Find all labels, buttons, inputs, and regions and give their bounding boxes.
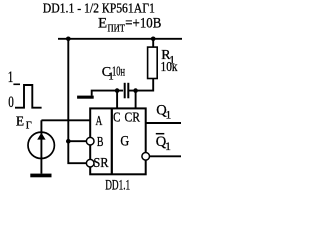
wire: +E vertical down to SR — [68, 39, 87, 163]
junction node: rail to R1 — [151, 37, 156, 42]
svg-text:DD1.1 - 1/2 КР561АГ1: DD1.1 - 1/2 КР561АГ1 — [43, 1, 155, 16]
pulse waveform — [15, 85, 42, 108]
svg-text:10н: 10н — [112, 65, 125, 80]
svg-text:Е: Е — [16, 114, 24, 129]
generator shaft wire — [40, 120, 42, 173]
svg-text:CR: CR — [125, 109, 141, 124]
wire: generator to pin A — [41, 119, 90, 121]
svg-text:10к: 10к — [161, 60, 178, 75]
wire: output Q1bar — [149, 155, 181, 157]
wire: rail down to R1 top — [152, 39, 154, 47]
ground bar near capacitor — [77, 96, 94, 99]
label Q1bar overline — [156, 133, 165, 135]
waveform level tick 1 — [13, 83, 20, 85]
wire: R1 bottom to capacitor node — [129, 79, 154, 91]
junction node at B row — [66, 139, 71, 144]
inversion circle output Q1bar — [142, 153, 150, 161]
IC U1 body — [90, 108, 146, 174]
power rail wire — [58, 38, 182, 40]
svg-text:ПИТ: ПИТ — [108, 24, 126, 35]
svg-text:1: 1 — [165, 141, 171, 153]
inversion circle pin B — [86, 137, 94, 145]
ground bar generator — [30, 174, 51, 178]
wire: output Q1 — [146, 122, 181, 124]
svg-text:C: C — [113, 109, 120, 124]
wire: node to pin C — [116, 91, 118, 109]
junction node: rail to B/SR wire — [66, 37, 71, 42]
svg-text:DD1.1: DD1.1 — [105, 177, 130, 193]
svg-text:G: G — [120, 134, 129, 150]
svg-text:1: 1 — [166, 110, 172, 122]
svg-text:=+10В: =+10В — [125, 15, 161, 31]
wire: branch to pin B — [68, 140, 87, 142]
capacitor C1 plates — [124, 83, 126, 99]
svg-text:1: 1 — [8, 69, 14, 86]
junction node CR pin — [133, 88, 138, 93]
junction node C pin — [115, 88, 120, 93]
inversion circle pin SR — [86, 159, 94, 167]
svg-text:Е: Е — [98, 15, 107, 31]
resistor R1 — [148, 47, 158, 78]
svg-text:0: 0 — [8, 94, 14, 111]
wire: cap left plate to ground — [92, 91, 123, 96]
svg-text:Г: Г — [26, 120, 32, 131]
svg-text:SR: SR — [93, 155, 108, 170]
generator EG circle — [28, 132, 54, 158]
IC divider line — [111, 108, 113, 175]
svg-text:B: B — [97, 134, 104, 149]
svg-text:A: A — [96, 113, 103, 128]
generator arrow — [37, 133, 45, 140]
wire: node to pin CR — [135, 91, 137, 109]
